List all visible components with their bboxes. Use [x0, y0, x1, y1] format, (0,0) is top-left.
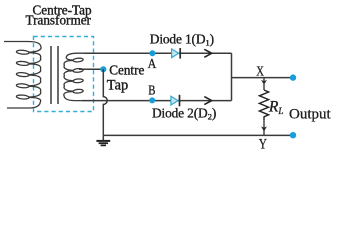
diode D2	[171, 96, 178, 105]
wire: bottom rail to terminal Y	[103, 134, 293, 136]
svg-text:Transformer: Transformer	[26, 13, 92, 28]
wire: centre tap lead	[79, 68, 103, 70]
transformer T1 boundary (dashed box)	[34, 37, 94, 112]
node A	[149, 50, 155, 56]
wire: secondary bottom terminal to diode D2 and corner	[82, 100, 232, 102]
inductor: transformer primary winding (with AC input lead wires)	[4, 42, 41, 109]
svg-text:B: B	[148, 83, 155, 98]
ground	[96, 135, 110, 145]
diode D1	[172, 49, 179, 58]
resistor RL (load) with current direction arrows	[259, 78, 268, 136]
wire: right junction vertical (D1 output to D2 output)	[231, 53, 233, 100]
node B	[149, 97, 155, 103]
current direction arrow after D1	[204, 49, 211, 57]
svg-text:Output: Output	[289, 107, 332, 123]
node: centre tap	[100, 66, 106, 72]
current direction arrow after D2	[204, 97, 211, 105]
svg-text:Tap: Tap	[107, 78, 128, 94]
svg-text:Centre: Centre	[109, 63, 144, 78]
node X (output terminal)	[290, 74, 296, 80]
wire: secondary top terminal to diode D1 and corner	[84, 52, 232, 54]
transformer core (two bars)	[50, 46, 52, 104]
node Y (output terminal)	[290, 132, 296, 138]
inductor: transformer secondary winding	[64, 53, 86, 100]
svg-text:X: X	[256, 65, 264, 80]
svg-text:Y: Y	[259, 137, 267, 153]
wire: centre tap vertical to ground rail (hops over wire B)	[103, 69, 107, 135]
svg-text:A: A	[148, 56, 157, 71]
wire: junction to terminal X	[232, 77, 294, 79]
svg-text:Diode 2(D2): Diode 2(D2)	[152, 106, 216, 122]
svg-text:Diode 1(D1): Diode 1(D1)	[150, 32, 214, 48]
